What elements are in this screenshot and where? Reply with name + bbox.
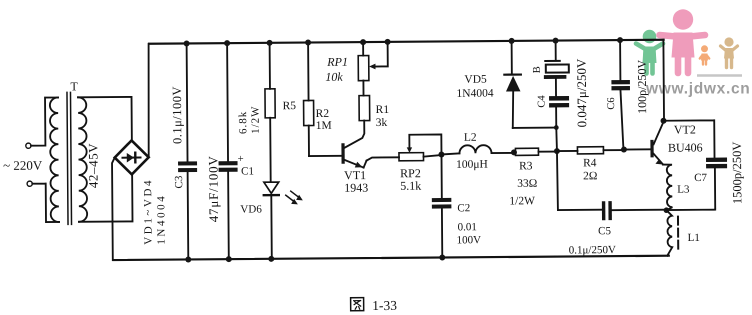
svg-text:C5: C5 <box>598 225 611 237</box>
svg-text:T: T <box>70 79 78 93</box>
inductor L1 core dashes <box>677 217 679 249</box>
resistor R3 <box>514 151 557 154</box>
svg-text:L3: L3 <box>677 184 690 196</box>
transducer B <box>555 41 557 61</box>
svg-text:0.047μ/250V: 0.047μ/250V <box>574 58 590 127</box>
transformer T secondary winding <box>78 97 87 222</box>
potentiometer RP2 wiper <box>409 134 441 154</box>
node L3/C5/C7/L1 junction <box>664 207 670 213</box>
transformer core <box>67 92 72 224</box>
resistor R1 <box>359 96 370 121</box>
inductor L2 <box>459 145 513 153</box>
inductor L3 <box>663 164 673 210</box>
svg-text:B: B <box>532 66 543 73</box>
wire terminal to primary bottom <box>32 183 59 222</box>
terminal input left <box>26 143 31 148</box>
capacitor C2 <box>440 154 443 257</box>
node top rail dots <box>184 37 624 46</box>
svg-text:R2: R2 <box>316 108 330 120</box>
node RP2/C2 junction <box>438 151 444 157</box>
wire VD5 to C4 bottom <box>513 127 556 129</box>
caption figure 1-33 <box>351 298 364 311</box>
wire base junction to VT2 <box>624 148 650 150</box>
watermark logo figures <box>636 9 742 75</box>
potentiometer RP2 <box>399 153 424 161</box>
wire bottom ground rail <box>113 256 668 260</box>
svg-text:R1: R1 <box>376 104 390 116</box>
resistor R4 <box>557 150 624 151</box>
svg-text:1N4004: 1N4004 <box>155 194 167 245</box>
svg-text:VT2: VT2 <box>674 122 696 136</box>
svg-text:VD1~VD4: VD1~VD4 <box>142 178 155 245</box>
svg-text:6.8k: 6.8k <box>237 111 249 134</box>
svg-text:L2: L2 <box>464 132 477 144</box>
svg-text:33Ω: 33Ω <box>517 178 537 190</box>
node L2/R3 junction <box>511 149 517 155</box>
potentiometer RP1 wiper <box>374 42 388 67</box>
wire node to L2 <box>441 153 459 154</box>
svg-text:1943: 1943 <box>344 181 368 195</box>
potentiometer RP1 <box>362 42 364 95</box>
svg-text:1M: 1M <box>316 120 332 132</box>
transistor VT2 <box>650 140 653 158</box>
svg-text:C3: C3 <box>173 175 185 188</box>
capacitor C6 <box>619 40 621 80</box>
node VD5/C4 junction <box>554 125 559 130</box>
svg-text:1/2W: 1/2W <box>509 195 535 207</box>
node VT2 collector junction <box>661 118 667 124</box>
bridge rectifier VD1-VD4 diamond <box>115 140 149 174</box>
svg-text:2Ω: 2Ω <box>583 170 597 182</box>
node R3/R4/C4 junction <box>554 148 560 154</box>
svg-text:42–45V: 42–45V <box>85 143 100 189</box>
svg-text:1-33: 1-33 <box>372 298 397 313</box>
svg-text:C7: C7 <box>694 172 707 184</box>
wire bridge - output drop to bottom rail <box>112 158 116 261</box>
svg-text:C2: C2 <box>457 202 470 214</box>
wire collector junction to C7 <box>664 120 715 158</box>
wire secondary top to bridge AC top <box>78 97 132 141</box>
svg-text:3k: 3k <box>376 117 388 129</box>
diode VD5 <box>511 41 513 73</box>
svg-text:100p/250V: 100p/250V <box>635 60 649 114</box>
svg-text:R5: R5 <box>283 100 297 112</box>
svg-text:~ 220V: ~ 220V <box>3 158 43 173</box>
inductor L1 <box>666 210 672 256</box>
svg-text:0.1μ/250V: 0.1μ/250V <box>569 244 616 256</box>
transformer T primary winding <box>50 97 59 222</box>
svg-text:5.1k: 5.1k <box>400 179 421 193</box>
resistor R5 <box>270 43 271 181</box>
wire RP2 to node <box>423 155 441 157</box>
svg-text:R3: R3 <box>519 160 533 172</box>
capacitor C5 <box>557 151 602 210</box>
svg-text:1/2W: 1/2W <box>250 105 262 134</box>
svg-text:RP1: RP1 <box>326 55 348 69</box>
svg-text:0.1μ/100V: 0.1μ/100V <box>170 86 184 144</box>
svg-text:+: + <box>237 153 243 165</box>
wire top rail left drop to bridge + output <box>148 44 150 157</box>
capacitor C7 <box>706 158 727 162</box>
svg-text:VD5: VD5 <box>464 74 487 86</box>
terminal input right <box>27 181 32 186</box>
capacitor C1 column <box>227 43 229 259</box>
svg-text:BU406: BU406 <box>668 140 703 154</box>
svg-text:C6: C6 <box>606 97 617 109</box>
wire R2 to VT1 base <box>309 155 341 157</box>
capacitor C4 <box>549 96 569 101</box>
svg-text:C4: C4 <box>537 95 548 108</box>
node C6/R4/base junction <box>621 147 627 153</box>
svg-text:100μH: 100μH <box>456 159 488 171</box>
svg-text:100V: 100V <box>457 234 482 246</box>
wire VT1 emitter to RP2 <box>367 157 400 160</box>
svg-text:www.jdwx.cn: www.jdwx.cn <box>645 81 750 98</box>
svg-text:47μF/100V: 47μF/100V <box>205 155 221 222</box>
wire terminal to primary top <box>31 97 59 145</box>
transistor VT1 <box>341 143 344 164</box>
wire top supply rail <box>149 40 663 44</box>
resistor R2 <box>307 43 310 156</box>
capacitor C3 column <box>187 43 189 259</box>
svg-text:C1: C1 <box>241 165 254 177</box>
svg-text:10k: 10k <box>325 70 343 84</box>
bridge diode symbol <box>122 157 140 159</box>
svg-text:VD6: VD6 <box>240 203 262 215</box>
svg-text:1500p/250V: 1500p/250V <box>730 142 744 205</box>
led VD6 arrows <box>286 195 295 202</box>
svg-text:1N4004: 1N4004 <box>456 88 493 100</box>
svg-text:R4: R4 <box>583 157 597 169</box>
svg-text:0.01: 0.01 <box>458 221 477 233</box>
led VD6 <box>264 182 279 193</box>
svg-text:L1: L1 <box>688 232 700 244</box>
wire secondary bottom to bridge AC bottom <box>79 174 133 221</box>
node bottom rail dots <box>185 254 445 262</box>
wire top rail right drop to VT2 collector <box>662 40 665 121</box>
